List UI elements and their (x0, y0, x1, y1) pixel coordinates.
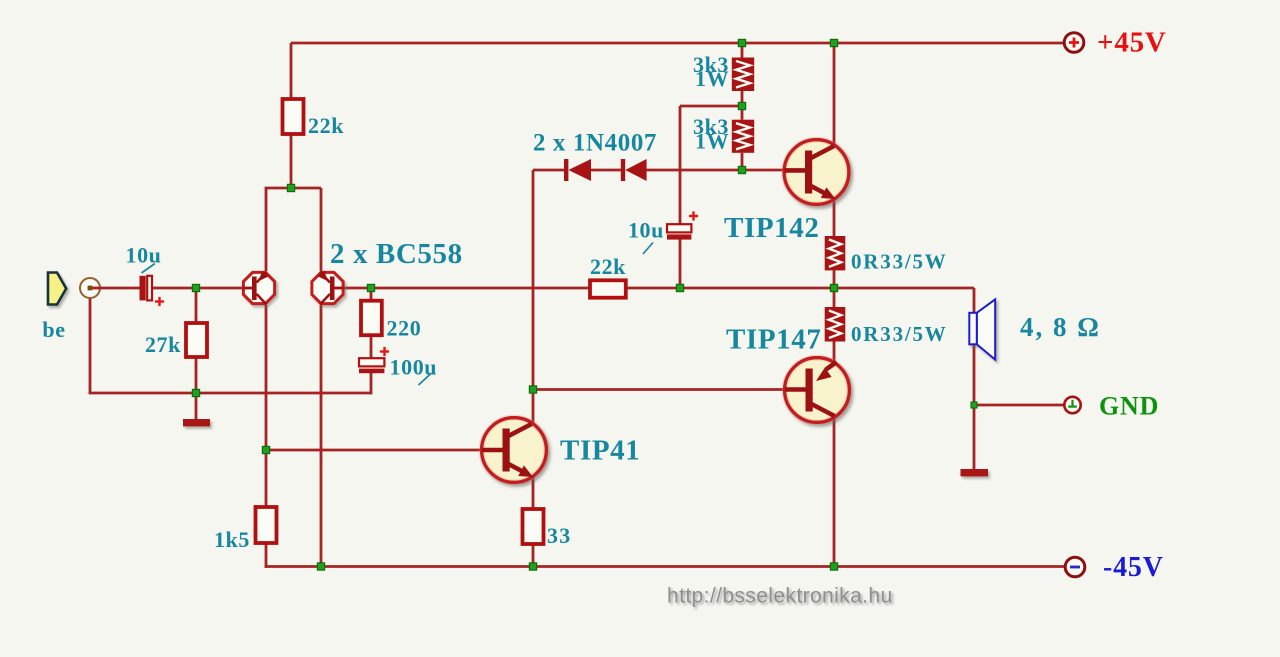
svg-text:1k5: 1k5 (214, 527, 250, 552)
svg-text:TIP41: TIP41 (560, 435, 640, 467)
svg-text:0R33/5W: 0R33/5W (851, 322, 948, 346)
svg-text:TIP142: TIP142 (724, 212, 819, 244)
svg-text:2 x BC558: 2 x BC558 (330, 238, 463, 270)
svg-text:27k: 27k (145, 332, 181, 357)
svg-text:10u: 10u (628, 218, 664, 243)
svg-text:220: 220 (387, 316, 422, 341)
svg-text:22k: 22k (308, 113, 344, 138)
svg-text:0R33/5W: 0R33/5W (851, 250, 948, 274)
svg-text:33: 33 (547, 523, 571, 548)
svg-text:10u: 10u (125, 243, 161, 268)
svg-text:4, 8 Ω: 4, 8 Ω (1020, 312, 1101, 342)
svg-text:1W: 1W (695, 129, 729, 154)
svg-text:TIP147: TIP147 (726, 324, 821, 356)
svg-text:+45V: +45V (1097, 27, 1167, 59)
svg-text:GND: GND (1099, 392, 1159, 421)
svg-text:be: be (42, 317, 65, 342)
svg-text:http://bsselektronika.hu: http://bsselektronika.hu (667, 585, 893, 608)
svg-text:22k: 22k (590, 254, 626, 279)
svg-text:-45V: -45V (1103, 552, 1164, 583)
svg-text:100u: 100u (390, 355, 438, 380)
svg-text:2 x 1N4007: 2 x 1N4007 (533, 130, 657, 157)
svg-text:1W: 1W (695, 66, 729, 91)
